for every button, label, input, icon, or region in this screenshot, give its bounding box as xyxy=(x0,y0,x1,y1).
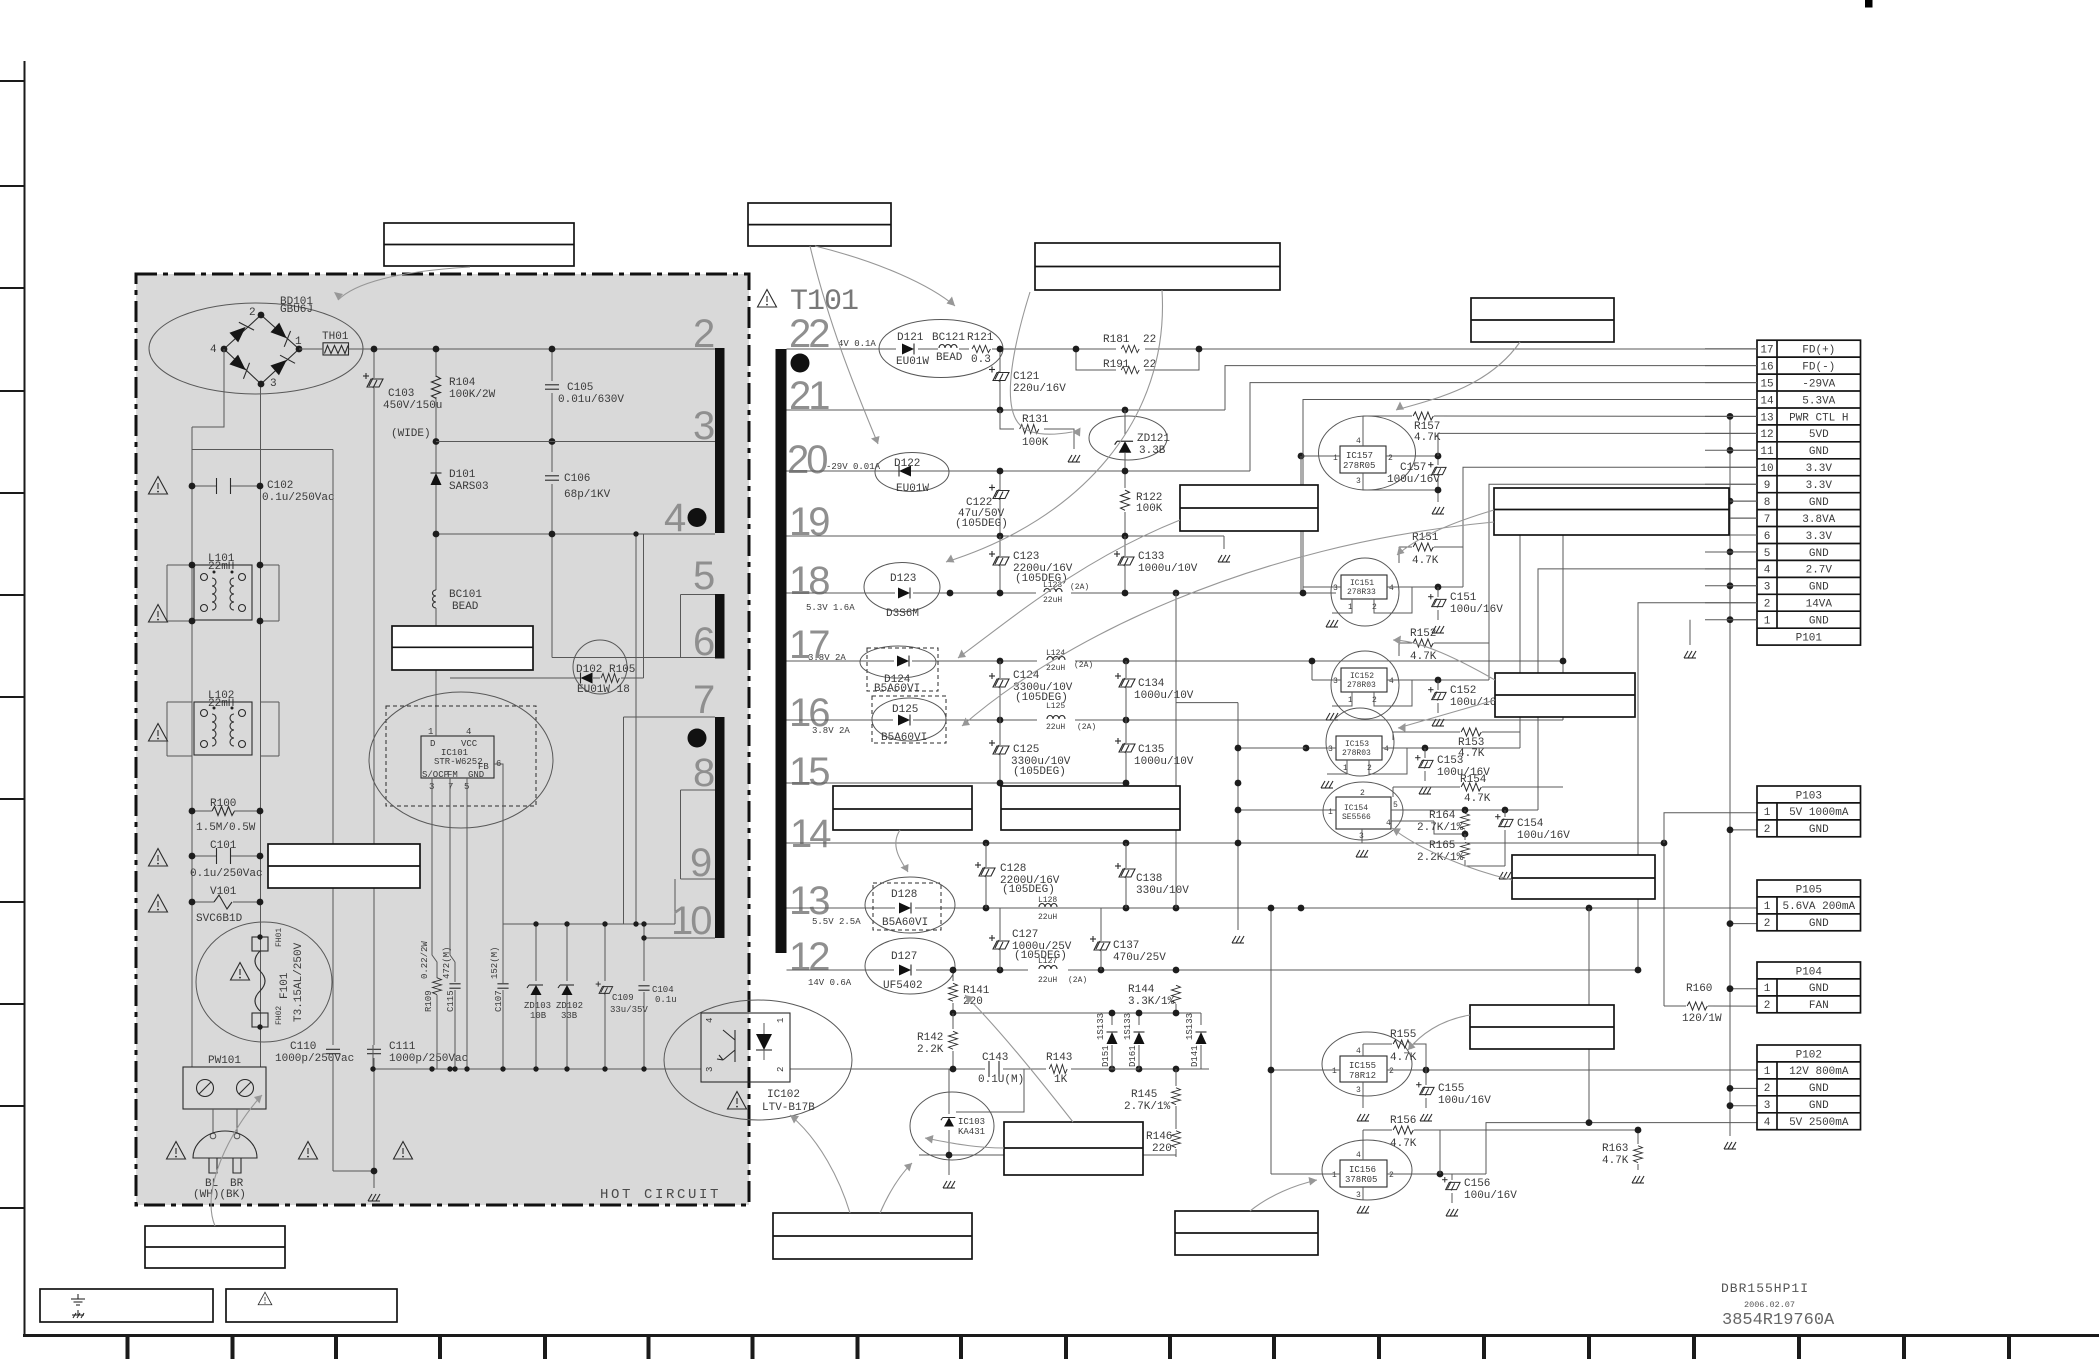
callout box I (rail15 right) xyxy=(1001,786,1180,830)
svg-text:100u/16V: 100u/16V xyxy=(1387,474,1440,486)
svg-text:C151: C151 xyxy=(1450,592,1477,604)
wire pin4 node xyxy=(436,534,715,678)
diode D123 xyxy=(864,563,940,621)
arrow K to IC153 xyxy=(1398,700,1495,728)
capacitor C115 xyxy=(442,947,461,1069)
capacitor C135 xyxy=(1115,720,1194,783)
HOT CIRCUIT shaded area xyxy=(136,274,749,1205)
svg-text:3: 3 xyxy=(1764,1100,1771,1112)
resistor R191 loop xyxy=(1073,346,1203,374)
svg-text:R121: R121 xyxy=(967,332,994,344)
svg-text:D122: D122 xyxy=(894,458,920,470)
ground C154 xyxy=(1499,872,1511,879)
arrow D to IC157 xyxy=(1396,342,1520,410)
svg-text:KA431: KA431 xyxy=(958,1127,985,1137)
ground C151 xyxy=(1432,626,1444,633)
inductor L128 xyxy=(1028,896,1068,922)
svg-text:33B: 33B xyxy=(561,1011,578,1021)
svg-text:ZD102: ZD102 xyxy=(556,1001,583,1011)
capacitor C155 xyxy=(1416,1070,1491,1108)
svg-text:L124: L124 xyxy=(1046,649,1065,658)
capacitor C128 xyxy=(975,843,1060,908)
thermistor TH01 xyxy=(322,331,349,355)
svg-text:8: 8 xyxy=(1764,497,1771,509)
op-amp U IC101 STR-W6252 xyxy=(421,727,501,792)
svg-text:2: 2 xyxy=(1764,1000,1771,1012)
svg-text:BC101: BC101 xyxy=(449,589,482,601)
svg-text:22uH: 22uH xyxy=(1038,913,1057,922)
svg-text:3.3B: 3.3B xyxy=(1139,445,1166,457)
connector P105 xyxy=(1757,880,1861,931)
svg-text:3.3V: 3.3V xyxy=(1806,480,1833,492)
ground P101 xyxy=(1689,620,1691,645)
left tick marks xyxy=(0,81,24,1208)
svg-text:EU01W: EU01W xyxy=(896,356,929,368)
diode D101 xyxy=(431,438,489,590)
svg-text:C101: C101 xyxy=(210,840,237,852)
svg-text:22uH: 22uH xyxy=(1038,976,1057,985)
ground C155 xyxy=(1420,1114,1432,1121)
callout box F (IC101) xyxy=(392,626,533,670)
svg-text:472(M): 472(M) xyxy=(442,947,452,979)
svg-text:L128: L128 xyxy=(1038,896,1057,905)
T101 pin 8 xyxy=(681,751,716,795)
polarity dot sec xyxy=(791,354,810,373)
wire rail 21 xyxy=(787,366,1758,410)
arrow Q to PW101 xyxy=(211,1095,262,1226)
svg-text:2: 2 xyxy=(1764,1083,1771,1095)
connector P103 xyxy=(1757,786,1861,837)
svg-text:SARS03: SARS03 xyxy=(449,481,489,493)
svg-text:GND: GND xyxy=(1809,616,1829,628)
svg-text:220: 220 xyxy=(1152,1143,1172,1155)
ground C153 xyxy=(1419,787,1431,794)
svg-text:B5A60VI: B5A60VI xyxy=(882,917,928,929)
svg-text:IC154: IC154 xyxy=(1344,804,1368,813)
svg-text:2: 2 xyxy=(1388,454,1393,463)
svg-text:C152: C152 xyxy=(1450,685,1476,697)
svg-text:4: 4 xyxy=(1386,819,1391,828)
T101 pin 5 xyxy=(681,554,716,598)
capacitor C109 xyxy=(596,982,649,1070)
capacitor C105 xyxy=(545,346,624,442)
callout box D (IC157) xyxy=(1471,298,1614,342)
resistor R155 xyxy=(1363,1029,1426,1070)
svg-text:120/1W: 120/1W xyxy=(1682,1013,1722,1025)
wire IC101 FB to C107 column xyxy=(494,764,503,983)
svg-text:-29V 0.01A: -29V 0.01A xyxy=(826,462,881,472)
arrow J to IC151 xyxy=(1397,510,1494,555)
wire rail 19 xyxy=(787,536,1225,549)
capacitor C107 xyxy=(490,947,509,1069)
svg-text:SE5566: SE5566 xyxy=(1342,813,1371,822)
svg-text:3.8V 2A: 3.8V 2A xyxy=(808,653,846,663)
svg-text:R160: R160 xyxy=(1686,983,1712,995)
svg-text:20: 20 xyxy=(787,438,827,482)
svg-text:1000p/250Vac: 1000p/250Vac xyxy=(275,1053,354,1065)
diode D121 xyxy=(879,320,1003,378)
svg-text:78R12: 78R12 xyxy=(1349,1071,1376,1081)
svg-text:152(M): 152(M) xyxy=(490,947,500,979)
T101 core bar primary xyxy=(715,348,725,533)
connector PW101 xyxy=(183,1055,266,1109)
svg-text:IC156: IC156 xyxy=(1349,1165,1376,1175)
svg-text:4: 4 xyxy=(1764,1117,1771,1129)
svg-text:22mH: 22mH xyxy=(208,561,234,573)
svg-text:STR-W6252: STR-W6252 xyxy=(434,757,483,767)
svg-text:LTV-B17B: LTV-B17B xyxy=(762,1102,815,1114)
resistor R151 xyxy=(1399,532,1463,587)
svg-text:220u/16V: 220u/16V xyxy=(1013,383,1066,395)
connector P101 xyxy=(1757,340,1861,645)
svg-text:3: 3 xyxy=(1356,1086,1361,1095)
svg-text:R144: R144 xyxy=(1128,984,1155,996)
svg-text:22: 22 xyxy=(1143,334,1156,346)
callout box G (gray box mid) xyxy=(268,844,420,888)
wire GND bus xyxy=(1730,416,1757,1136)
capacitor C110 xyxy=(275,1041,354,1171)
svg-text:(2A): (2A) xyxy=(1077,723,1096,732)
svg-text:5: 5 xyxy=(1764,548,1771,560)
wire pin7 drop xyxy=(623,717,625,924)
ground IC154 xyxy=(1356,850,1368,857)
resistor R160 xyxy=(1661,840,1757,1025)
wire R143 to IC103 ref xyxy=(966,1069,1139,1112)
wire rail 12 xyxy=(787,969,1639,971)
ground IC153 xyxy=(1321,781,1333,788)
svg-text:C154: C154 xyxy=(1517,818,1544,830)
wire pin6 link xyxy=(552,595,681,658)
wire IC103 bottom xyxy=(919,1155,1176,1175)
wire rail13 riser P102-4 xyxy=(1589,908,1757,1123)
svg-text:0.1u/250Vac: 0.1u/250Vac xyxy=(190,868,263,880)
callout box M (IC155) xyxy=(1470,1005,1614,1049)
callout box Q (plug) xyxy=(145,1226,285,1268)
svg-text:4: 4 xyxy=(1384,745,1389,754)
resistor R143 xyxy=(1046,1052,1072,1086)
wire 2.7V row4 riser xyxy=(1538,569,1757,810)
svg-text:GND: GND xyxy=(1809,824,1829,836)
ground R163 xyxy=(1632,1176,1644,1183)
svg-text:4: 4 xyxy=(466,727,471,737)
svg-text:C106: C106 xyxy=(564,473,590,485)
svg-text:2: 2 xyxy=(1764,918,1771,930)
callout box H (rail15 left) xyxy=(833,786,972,830)
svg-text:D128: D128 xyxy=(891,889,917,901)
shunt reg IC103 xyxy=(910,1069,994,1160)
diode D125 xyxy=(872,696,946,744)
resistor R100 xyxy=(189,798,264,834)
wire 3.3V row10 riser xyxy=(1463,467,1757,587)
svg-text:3: 3 xyxy=(705,1067,715,1072)
svg-text:1: 1 xyxy=(1328,808,1333,817)
diode D122 xyxy=(875,453,949,496)
svg-text:3: 3 xyxy=(1356,477,1361,486)
resistor R121 xyxy=(967,332,994,366)
svg-text:C134: C134 xyxy=(1138,678,1165,690)
svg-text:BEAD: BEAD xyxy=(452,601,479,613)
svg-text:R164: R164 xyxy=(1429,810,1456,822)
svg-text:1: 1 xyxy=(1764,983,1771,995)
T101 pin 4 xyxy=(664,496,707,540)
wire P101 stubs xyxy=(1705,349,1757,620)
callout box O (IC102 bottom) xyxy=(773,1213,972,1259)
resistor R109 xyxy=(420,941,442,1012)
wire 3.3V row9 riser xyxy=(1489,484,1757,680)
svg-text:10B: 10B xyxy=(530,1011,547,1021)
svg-text:12V 800mA: 12V 800mA xyxy=(1789,1066,1849,1078)
svg-text:D3S6M: D3S6M xyxy=(886,608,919,620)
wire IC157 input from rail13 xyxy=(1300,456,1302,593)
svg-text:C137: C137 xyxy=(1113,940,1139,952)
svg-text:3: 3 xyxy=(1333,584,1338,593)
svg-text:4.7K: 4.7K xyxy=(1390,1138,1417,1150)
inductor L127 xyxy=(1038,957,1087,985)
svg-text:GND: GND xyxy=(1809,1100,1829,1112)
wire feedback node y=1013 xyxy=(953,1004,1201,1025)
wire rail 20 xyxy=(787,383,1758,471)
svg-text:12: 12 xyxy=(789,935,829,979)
svg-text:1: 1 xyxy=(1764,807,1771,819)
svg-text:R145: R145 xyxy=(1131,1089,1157,1101)
warning triangle T101 xyxy=(758,290,777,308)
ground GND bus xyxy=(1724,1142,1736,1149)
svg-text:1000u/10V: 1000u/10V xyxy=(1134,756,1194,768)
svg-text:D127: D127 xyxy=(891,951,917,963)
T101 pin 9 xyxy=(681,841,716,885)
warning triangle C110 xyxy=(299,1142,318,1160)
svg-text:IC103: IC103 xyxy=(958,1117,985,1127)
wire IC154 input xyxy=(1238,809,1308,811)
svg-text:2: 2 xyxy=(693,312,714,356)
svg-text:2: 2 xyxy=(776,1067,786,1072)
arrow L to IC154 xyxy=(1392,828,1512,880)
svg-text:S/OCP: S/OCP xyxy=(422,770,449,780)
svg-text:278R03: 278R03 xyxy=(1342,749,1371,758)
diode D124 xyxy=(860,646,938,695)
resistor R131 xyxy=(1000,410,1080,462)
svg-text:4.7K: 4.7K xyxy=(1410,651,1437,663)
arrow E to D124 xyxy=(958,520,1180,658)
svg-text:1S133: 1S133 xyxy=(1123,1013,1133,1040)
arrow K to IC152 xyxy=(1393,640,1495,680)
svg-text:GND: GND xyxy=(1809,582,1829,594)
T101 pin 3 xyxy=(681,404,716,448)
svg-text:2: 2 xyxy=(1389,1067,1394,1076)
svg-text:330u/10V: 330u/10V xyxy=(1136,885,1189,897)
svg-text:100u/16V: 100u/16V xyxy=(1438,1095,1491,1107)
resistor R144 xyxy=(1128,908,1181,1008)
svg-text:GND: GND xyxy=(1809,1083,1829,1095)
svg-text:4: 4 xyxy=(664,496,686,540)
svg-text:5.3VA: 5.3VA xyxy=(1802,395,1835,407)
svg-text:1000p/250Vac: 1000p/250Vac xyxy=(389,1053,468,1065)
capacitor C124 xyxy=(989,661,1073,720)
shunt IC154 xyxy=(1308,782,1538,843)
svg-text:FH01: FH01 xyxy=(275,928,284,947)
svg-text:4: 4 xyxy=(1764,565,1771,577)
svg-text:6: 6 xyxy=(693,620,714,664)
capacitor C156 xyxy=(1442,1174,1517,1203)
svg-text:100K/2W: 100K/2W xyxy=(449,389,496,401)
ground C157 xyxy=(1432,507,1444,514)
svg-text:-29VA: -29VA xyxy=(1802,378,1835,390)
svg-text:0.1u/250Vac: 0.1u/250Vac xyxy=(262,492,335,504)
ellipse IC101 xyxy=(369,692,553,828)
svg-text:R163: R163 xyxy=(1602,1143,1628,1155)
svg-text:C105: C105 xyxy=(567,382,593,394)
bridge rectifier BD101 xyxy=(149,296,363,394)
svg-text:5.3V 1.6A: 5.3V 1.6A xyxy=(806,603,855,613)
svg-text:R109: R109 xyxy=(424,990,434,1012)
svg-text:P102: P102 xyxy=(1796,1049,1822,1061)
capacitor C101 xyxy=(189,840,264,880)
resistor R164 xyxy=(1417,810,1470,837)
legend box ground xyxy=(40,1289,213,1322)
warning triangle C101 xyxy=(149,849,168,867)
T101 pin 2 xyxy=(683,312,715,356)
resistor R122 xyxy=(1121,468,1163,536)
svg-text:2.7K/1%: 2.7K/1% xyxy=(1417,822,1464,834)
svg-text:100K: 100K xyxy=(1136,503,1163,515)
callout box N (IC103) xyxy=(1004,1122,1143,1175)
capacitor C138 xyxy=(1115,843,1189,908)
svg-text:18: 18 xyxy=(789,559,829,603)
svg-text:C125: C125 xyxy=(1013,744,1039,756)
arrow C to ZD121 xyxy=(1010,292,1072,434)
wire opto row y=1069 xyxy=(790,1068,1209,1070)
capacitor C122 xyxy=(955,468,1009,536)
svg-text:100u/16V: 100u/16V xyxy=(1517,830,1570,842)
svg-text:4.7K: 4.7K xyxy=(1602,1155,1629,1167)
svg-text:14: 14 xyxy=(1760,395,1774,407)
arrow J to D125 xyxy=(962,522,1494,726)
wire rail 16 xyxy=(787,719,1564,721)
svg-text:1: 1 xyxy=(1332,1171,1337,1180)
wire rail 13 xyxy=(787,907,1758,909)
svg-text:10: 10 xyxy=(1760,463,1773,475)
ground C156 xyxy=(1446,1209,1458,1216)
line filter L102 xyxy=(167,690,279,756)
arrow N to IC103 xyxy=(925,1138,1004,1148)
svg-text:2: 2 xyxy=(1360,789,1365,798)
svg-text:R131: R131 xyxy=(1022,414,1049,426)
ground rail19 xyxy=(1218,555,1230,562)
svg-text:4: 4 xyxy=(1389,584,1394,593)
wire rail 14 xyxy=(787,842,1665,844)
capacitor C137 xyxy=(1090,908,1166,970)
wire 3.3V row6 riser xyxy=(1520,535,1757,748)
resistor R157 xyxy=(1363,412,1757,444)
svg-text:R142: R142 xyxy=(917,1032,943,1044)
svg-text:D161: D161 xyxy=(1128,1045,1138,1067)
svg-text:P105: P105 xyxy=(1796,884,1822,896)
callout box P (IC156) xyxy=(1175,1211,1318,1255)
svg-text:9: 9 xyxy=(690,841,711,885)
varistor V101 xyxy=(189,886,264,925)
AC plug xyxy=(193,1109,257,1201)
capacitor C111 xyxy=(367,1041,468,1171)
svg-text:3.3V: 3.3V xyxy=(1806,531,1833,543)
svg-text:IC102: IC102 xyxy=(767,1089,800,1101)
svg-text:9: 9 xyxy=(1764,480,1771,492)
svg-text:1S133: 1S133 xyxy=(1185,1013,1195,1040)
svg-text:450V/150u: 450V/150u xyxy=(383,400,442,412)
svg-text:R152: R152 xyxy=(1410,628,1436,640)
svg-text:(2A): (2A) xyxy=(1074,661,1093,670)
regulator IC157 xyxy=(1298,416,1438,490)
resistor R154 xyxy=(1393,774,1563,805)
svg-text:(105DEG): (105DEG) xyxy=(1002,884,1055,896)
wire rail12 riser 14VA row2 xyxy=(1638,603,1757,970)
arrow O to IC102 xyxy=(790,1115,850,1213)
resistor R142 xyxy=(917,1013,958,1069)
inductor L124 xyxy=(1046,649,1093,673)
svg-text:278R33: 278R33 xyxy=(1347,588,1376,597)
arrow B to D121 xyxy=(815,246,955,306)
svg-text:1000u/10V: 1000u/10V xyxy=(1138,563,1198,575)
svg-text:100u/16V: 100u/16V xyxy=(1464,1190,1517,1202)
regulator IC152 xyxy=(1312,651,1489,719)
svg-text:R143: R143 xyxy=(1046,1052,1072,1064)
svg-text:68p/1KV: 68p/1KV xyxy=(564,489,611,501)
wire rail 15 xyxy=(787,782,1127,784)
callout box C (top wide) xyxy=(1035,243,1280,290)
svg-text:C103: C103 xyxy=(388,388,414,400)
diode D102 / resistor R105 xyxy=(450,640,644,696)
wire rail14 to P103 xyxy=(1664,813,1757,843)
regulator IC156 xyxy=(1271,1130,1486,1200)
svg-text:C104: C104 xyxy=(652,985,674,995)
warning triangle C102 xyxy=(149,477,168,495)
callout box A (BD101) xyxy=(384,223,574,266)
svg-text:GND: GND xyxy=(1809,548,1829,560)
bottom tick marks xyxy=(128,1335,2010,1359)
connector P102 xyxy=(1757,1045,1861,1130)
svg-text:1.5M/0.5W: 1.5M/0.5W xyxy=(196,822,256,834)
svg-text:BEAD: BEAD xyxy=(936,352,963,364)
legend box warning xyxy=(226,1289,397,1322)
svg-text:22uH: 22uH xyxy=(1043,596,1062,605)
svg-text:11: 11 xyxy=(1760,446,1774,458)
svg-text:100K: 100K xyxy=(1022,437,1049,449)
svg-text:GND: GND xyxy=(1809,446,1829,458)
svg-text:5: 5 xyxy=(1393,801,1398,810)
svg-text:C109: C109 xyxy=(612,993,634,1003)
svg-text:GND: GND xyxy=(1809,497,1829,509)
arrow O to IC103b xyxy=(880,1163,912,1213)
T101 core bar secondary xyxy=(776,349,787,953)
svg-text:0.1u: 0.1u xyxy=(655,995,677,1005)
svg-text:4V 0.1A: 4V 0.1A xyxy=(838,339,876,349)
svg-text:1K: 1K xyxy=(1054,1074,1068,1086)
resistor R145 xyxy=(1124,1069,1181,1113)
arrow B to D122 xyxy=(810,246,878,444)
svg-text:3.8V 2A: 3.8V 2A xyxy=(812,726,850,736)
svg-text:2.7K/1%: 2.7K/1% xyxy=(1124,1101,1171,1113)
svg-text:(2A): (2A) xyxy=(1070,583,1089,592)
svg-text:B5A60VI: B5A60VI xyxy=(874,683,920,695)
resistor R156 xyxy=(1363,1115,1638,1174)
wire GND column x=1238 xyxy=(1176,703,1238,930)
svg-text:1: 1 xyxy=(295,336,302,348)
svg-text:ZD121: ZD121 xyxy=(1137,433,1170,445)
svg-text:P104: P104 xyxy=(1796,966,1823,978)
wire primary bottom rail xyxy=(373,1045,701,1069)
regulator IC153 xyxy=(1303,708,1520,776)
svg-text:14V 0.6A: 14V 0.6A xyxy=(808,978,852,988)
wire feedback bus x=1176 xyxy=(1175,593,1177,908)
